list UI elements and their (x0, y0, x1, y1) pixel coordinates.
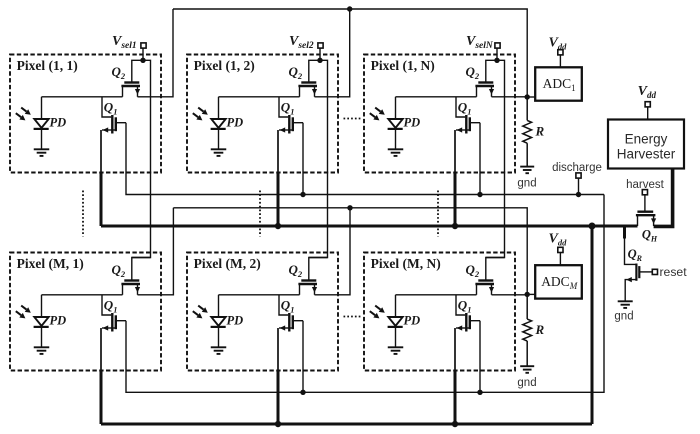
transistor Q_H gate plate (637, 210, 653, 212)
node harvest bus junction (1,N) (452, 223, 458, 229)
transistor Q2 (1,1) gate plate (124, 81, 139, 83)
ellipsis dots between columns row 1 (344, 118, 361, 120)
node row M bus junction (347, 205, 352, 210)
transistor Q1 (1,1) gate plate (111, 115, 113, 134)
wire row M harvest bus riser (thick) (591, 226, 594, 424)
light arrows into PD (1,2) (198, 108, 203, 112)
svg-text:Pixel (M, N): Pixel (M, N) (371, 256, 441, 271)
V_selN terminal (495, 43, 500, 48)
node V_selN junction (494, 58, 499, 63)
transistor Q1 (M,2) gate plate (288, 313, 290, 332)
transistor Q1 (M,N) channel plate (469, 315, 471, 329)
wire ADCM input (527, 293, 535, 295)
wire PD (1,N) cathode (395, 97, 397, 119)
wire select column into Q2 (M,N) gate (486, 258, 505, 280)
svg-text:Pixel (1, 2): Pixel (1, 2) (194, 58, 255, 73)
node harvest bus junction (M,N) (452, 421, 458, 427)
transistor Q_R channel plate (635, 264, 637, 281)
photodiode PD (1,N) (388, 119, 402, 128)
svg-text:R: R (535, 124, 545, 139)
wire discharge bus row 1 (126, 123, 604, 195)
svg-text:R: R (535, 322, 545, 337)
harvest terminal (642, 190, 647, 195)
wire Q2 (1,N) gate lead (486, 60, 497, 81)
svg-text:Harvester: Harvester (617, 147, 676, 162)
wire top row output bus (173, 9, 527, 97)
wire PD (M,2) anode to ground (218, 327, 220, 347)
transistor Q2 (M,1) gate plate (124, 279, 139, 281)
svg-text:Energy: Energy (625, 132, 668, 147)
wire PD (1,1) anode to ground (41, 129, 43, 149)
wire PD (M,1) anode to ground (41, 327, 43, 347)
V_sel2 terminal (318, 43, 323, 48)
arrow on Q1 (M,1) source lead (103, 325, 109, 330)
wire PD (1,N) anode to ground (395, 129, 397, 149)
discharge terminal (576, 173, 581, 178)
transistor Q2 (M,N) channel plate (475, 283, 494, 285)
wire pixel (1,N) Q1 source drop (thick) (454, 130, 456, 174)
transistor Q2 (1,2) channel plate (298, 85, 317, 87)
wire Q1 (M,2) drain lead (293, 320, 303, 322)
wire Q1 (1,2) source lead (279, 129, 293, 131)
ellipsis dots below pixel column N (437, 191, 439, 237)
wire V_selN column to row M (486, 60, 505, 257)
wire Q_R source lead (625, 280, 636, 301)
photodiode PD (1,2) (211, 119, 225, 128)
transistor Q2 (1,1) channel plate (121, 85, 140, 87)
transistor Q2 (M,N) gate plate (478, 279, 493, 281)
wire Q2 (M,1) drain lead (137, 284, 139, 295)
transistor Q2 (M,2) gate plate (301, 279, 316, 281)
transistor Q1 (1,N) channel plate (469, 117, 471, 131)
wire discharge bus row M (126, 195, 604, 393)
node harvest bus junction (M,2) (275, 421, 281, 427)
arrow on Q_R source lead (626, 277, 632, 282)
ellipsis dots below pixel column 2 (259, 191, 261, 237)
transistor Q2 (M,2) channel plate (298, 283, 317, 285)
block ADC1 (535, 67, 582, 100)
wire Q1 (M,N) drain lead (470, 320, 480, 322)
pixel (1,1) dashed cell box (10, 55, 161, 173)
V_dd terminal for ADCM (558, 247, 563, 252)
light arrows into PD (M,N) (375, 306, 380, 310)
node ADCM input junction (525, 292, 530, 297)
node V_sel2 junction (317, 58, 322, 63)
wire Q1 (M,N) gate lead (456, 295, 465, 315)
wire pixel (1,N) output to ADC node (492, 96, 528, 98)
wire pixel (1,2) internal node (219, 96, 300, 98)
wire pixel (1,N) Q1 drain drop (479, 123, 481, 195)
wire Q2 (1,2) source lead (299, 86, 301, 97)
wire Q1 (M,1) drain lead (116, 320, 126, 322)
arrow on Q_H drain lead (651, 218, 656, 224)
wire Q1 (1,1) source lead (102, 129, 116, 131)
transistor Q2 (M,1) channel plate (121, 283, 140, 285)
block Energy Harvester (608, 120, 684, 169)
photodiode PD (M,N) (388, 317, 402, 326)
wire Q2 (1,1) gate lead (132, 60, 143, 81)
transistor Q_H channel plate (636, 214, 656, 216)
ground PD (1,2) (211, 148, 227, 150)
svg-text:Pixel (M, 2): Pixel (M, 2) (194, 256, 261, 271)
transistor Q_R gate plate (638, 266, 640, 278)
wire Q_R gate to reset terminal (640, 271, 652, 273)
wire V_dd to energy harvester (647, 107, 649, 120)
arrow on Q2 (M,1) drain lead (135, 287, 140, 293)
wire pixel (M,N) internal node (396, 294, 477, 296)
V_dd terminal for energy harvester (645, 102, 650, 107)
photodiode PD (M,1) (34, 317, 48, 326)
wire pixel (1,2) Q1 source drop (thick) (277, 130, 279, 174)
ground PD (M,1) (34, 346, 50, 348)
wire PD (1,2) anode to ground (218, 129, 220, 149)
svg-text:Pixel (1, 1): Pixel (1, 1) (17, 58, 78, 73)
node discharge bus junction (M,2) (300, 390, 305, 395)
wire harvest bus row 1 (thick) (100, 130, 102, 174)
ground below Q_R (618, 300, 633, 302)
svg-text:Pixel (M, 1): Pixel (M, 1) (17, 256, 84, 271)
wire Q2 (M,N) source lead (476, 284, 478, 295)
wire V_dd to ADC1 (559, 55, 561, 67)
svg-text:PD: PD (404, 116, 421, 130)
wire Q2 (M,1) source lead (122, 284, 124, 295)
svg-text:Pixel (1, N): Pixel (1, N) (371, 58, 435, 73)
svg-text:gnd: gnd (614, 311, 633, 323)
node discharge bus junction (1,N) (477, 192, 482, 197)
wire harvest terminal to Q_H gate (644, 195, 646, 211)
wire pixel (M,1) internal node (42, 294, 123, 296)
photodiode PD (M,2) (211, 317, 225, 326)
svg-text:PD: PD (227, 116, 244, 130)
resistor R row 1 (526, 97, 528, 120)
wire PD (M,N) cathode (395, 295, 397, 317)
wire pixel (M,N) Q1 source drop (thick) (454, 328, 456, 372)
wire PD (M,N) anode to ground (395, 327, 397, 347)
resistor R row M (526, 294, 528, 319)
transistor Q1 (1,1) channel plate (115, 117, 117, 131)
block ADCM (535, 265, 582, 298)
wire Q2 (1,2) drain lead (314, 86, 316, 97)
transistor Q2 (1,N) gate plate (478, 81, 493, 83)
svg-text:gnd: gnd (517, 178, 536, 190)
wire Q1 (1,2) drain lead (293, 122, 303, 124)
wire PD (M,1) cathode (41, 295, 43, 317)
wire Q1 (1,N) source lead (456, 129, 470, 131)
node harvest bus junction riser (589, 223, 596, 230)
ground PD (M,N) (388, 346, 404, 348)
transistor Q2 (1,N) channel plate (475, 85, 494, 87)
arrow on Q2 (M,2) drain lead (312, 287, 317, 293)
svg-text:discharge: discharge (552, 162, 602, 174)
light arrows into PD (M,1) (21, 306, 26, 310)
wire V_sel1 terminal to node (142, 48, 144, 60)
pixel (1,2) dashed cell box (187, 55, 338, 173)
wire energy harvester to Q_H drain (thick) (654, 169, 673, 227)
transistor Q1 (M,2) channel plate (292, 315, 294, 329)
node V_sel1 junction (140, 58, 145, 63)
arrow on Q1 (M,2) source lead (280, 325, 286, 330)
reset terminal (652, 269, 657, 274)
ellipsis dots between columns row M (344, 316, 361, 318)
wire Q1 (1,2) gate lead (279, 97, 288, 117)
pixel (M,2) dashed cell box (187, 253, 338, 371)
V_sel1 terminal (141, 43, 146, 48)
wire Q2 (M,2) source lead (299, 284, 301, 295)
svg-text:ADC1: ADC1 (543, 76, 576, 93)
wire Q2 (1,2) gate lead (309, 60, 320, 81)
svg-text:PD: PD (50, 314, 67, 328)
ground PD (1,N) (388, 148, 404, 150)
wire Q_R drain lead (625, 239, 636, 265)
wire Q1 (M,N) source lead (456, 327, 470, 329)
wire Q1 (M,2) gate lead (279, 295, 288, 315)
light arrows into PD (M,2) (198, 306, 203, 310)
wire pixel (1,2) output to top bus (315, 9, 350, 97)
arrow on Q1 (1,2) source lead (280, 127, 286, 132)
pixel (M,N) dashed cell box (364, 253, 515, 371)
light arrows into PD (1,N) (375, 108, 380, 112)
wire Q2 (M,N) drain lead (491, 284, 493, 295)
wire Q2 (1,N) drain lead (491, 86, 493, 97)
transistor Q1 (M,1) gate plate (111, 313, 113, 332)
transistor Q1 (1,2) gate plate (288, 115, 290, 134)
wire PD (M,2) cathode (218, 295, 220, 317)
pixel (M,1) dashed cell box (10, 253, 161, 371)
svg-text:reset: reset (660, 265, 688, 279)
ground below R row M (520, 365, 534, 367)
wire Q2 (1,1) drain lead (137, 86, 139, 97)
node discharge junction (576, 192, 581, 197)
wire Q1 (1,N) drain lead (470, 122, 480, 124)
node ADC1 input junction (525, 94, 530, 99)
wire row M output bus (173, 208, 527, 295)
wire Q_H drain lead (653, 215, 655, 226)
ellipsis dots below pixel column 1 (82, 191, 84, 237)
arrow on Q2 (1,N) drain lead (489, 89, 494, 95)
photodiode PD (1,1) (34, 119, 48, 128)
arrow on Q2 (1,2) drain lead (312, 89, 317, 95)
wire PD (1,2) cathode (218, 97, 220, 119)
ground PD (M,2) (211, 346, 227, 348)
V_dd terminal for ADC1 (558, 50, 563, 55)
transistor Q1 (1,N) gate plate (465, 115, 467, 134)
wire pixel (M,2) Q1 drain drop (302, 321, 304, 393)
transistor Q2 (1,2) gate plate (301, 81, 316, 83)
wire V_sel2 column to row M (309, 60, 328, 257)
wire pixel (M,1) output to row bus (138, 208, 174, 295)
transistor Q1 (M,1) channel plate (115, 315, 117, 329)
node top bus junction (347, 6, 352, 11)
node discharge bus junction (M,N) (477, 390, 482, 395)
arrow on Q2 (1,1) drain lead (135, 89, 140, 95)
wire Q2 (M,2) drain lead (314, 284, 316, 295)
wire harvest bus to Q_R drain (thick stub) (623, 226, 626, 239)
wire pixel (1,2) Q1 drain drop (302, 123, 304, 195)
ground PD (1,1) (34, 148, 50, 150)
arrow on Q1 (1,1) source lead (103, 127, 109, 132)
wire pixel (M,2) internal node (219, 294, 300, 296)
wire pixel (M,2) Q1 source drop (thick) (277, 328, 279, 372)
svg-text:PD: PD (50, 116, 67, 130)
wire Q1 (M,1) source lead (102, 327, 116, 329)
wire V_selN terminal to node (496, 48, 498, 60)
arrow on Q2 (M,N) drain lead (489, 287, 494, 293)
wire pixel (M,2) output to row bus (315, 208, 351, 295)
arrow on Q1 (1,N) source lead (457, 127, 463, 132)
wire select column into Q2 (M,1) gate (132, 258, 151, 280)
svg-text:PD: PD (227, 314, 244, 328)
wire Q1 (1,1) gate lead (102, 97, 111, 117)
wire Q1 (1,1) drain lead (116, 122, 126, 124)
wire PD (1,1) cathode (41, 97, 43, 119)
light arrows into PD (1,1) (21, 108, 26, 112)
wire pixel (1,N) internal node (396, 96, 477, 98)
wire V_sel1 column to row M (132, 60, 151, 257)
wire ADC1 input (527, 96, 535, 98)
wire Q1 (M,2) source lead (279, 327, 293, 329)
svg-text:gnd: gnd (517, 377, 536, 389)
wire pixel (1,1) output to top bus (138, 9, 174, 97)
transistor Q1 (M,N) gate plate (465, 313, 467, 332)
node harvest bus junction (1,2) (275, 223, 281, 229)
wire Q_H source lead (637, 215, 639, 226)
arrow on Q1 (M,N) source lead (457, 325, 463, 330)
wire Q2 (1,N) source lead (476, 86, 478, 97)
wire Q1 (1,N) gate lead (456, 97, 465, 117)
wire Q1 (M,1) gate lead (102, 295, 111, 315)
pixel (1,N) dashed cell box (364, 55, 515, 173)
wire pixel (M,N) Q1 drain drop (479, 321, 481, 393)
ground below R row 1 (520, 166, 534, 168)
wire V_sel2 terminal to node (319, 48, 321, 60)
wire pixel (1,1) internal node (42, 96, 123, 98)
wire harvest bus row M (thick) (100, 328, 102, 372)
wire Q2 (1,1) source lead (122, 86, 124, 97)
svg-text:PD: PD (404, 314, 421, 328)
transistor Q1 (1,2) channel plate (292, 117, 294, 131)
node discharge bus junction (1,2) (300, 192, 305, 197)
wire select column into Q2 (M,2) gate (309, 258, 328, 280)
wire V_dd to ADCM (559, 252, 561, 265)
wire pixel (M,N) output to ADC node (492, 294, 528, 296)
wire discharge terminal to bus (578, 178, 580, 195)
